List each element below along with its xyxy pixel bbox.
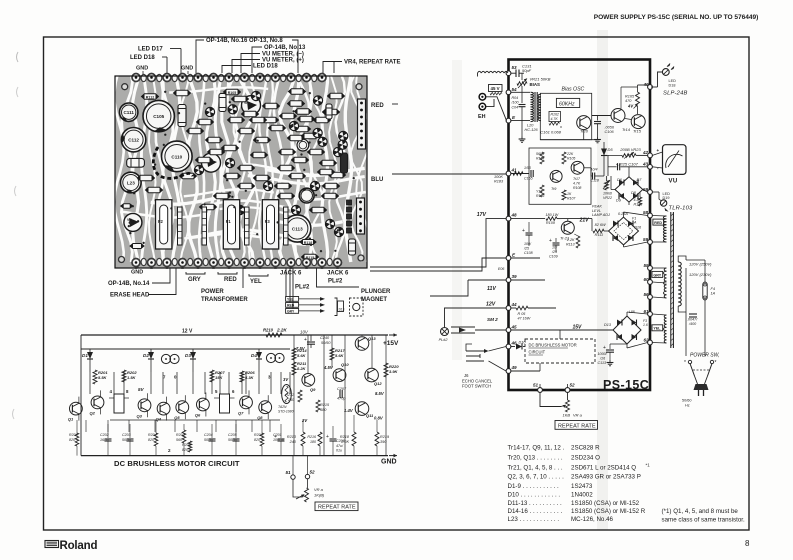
resistor oval r28 (pcb) bbox=[329, 172, 346, 178]
transistor Q8 bbox=[257, 395, 271, 420]
primary wires bbox=[678, 256, 705, 356]
svg-text:12 V: 12 V bbox=[182, 329, 193, 335]
svg-text:STD-1080: STD-1080 bbox=[278, 410, 294, 414]
LED D18 bbox=[651, 64, 688, 97]
trimmer VR22 bbox=[603, 176, 612, 200]
VU meter bbox=[657, 145, 687, 185]
diode D1 bbox=[82, 349, 93, 372]
svg-text:1S1850 (CSA) or MI-152: 1S1850 (CSA) or MI-152 bbox=[571, 500, 640, 507]
wire BLU to 41 bbox=[371, 174, 506, 183]
svg-text:470: 470 bbox=[625, 99, 632, 103]
terminal 49 bbox=[506, 365, 517, 373]
fuse F1 (pcb) bbox=[223, 200, 239, 249]
resistor oval r44 (pcb) bbox=[180, 173, 197, 179]
svg-text:D13: D13 bbox=[604, 323, 612, 327]
plunger coil PL#2 bbox=[439, 328, 449, 343]
transistor Q13 (pcb) bbox=[334, 227, 343, 236]
capacitor C107 bbox=[608, 155, 648, 176]
wire 42 43 to VU bbox=[652, 152, 662, 168]
svg-text:PL#2: PL#2 bbox=[328, 279, 343, 285]
svg-text:R210: R210 bbox=[263, 328, 274, 333]
svg-text:FOOT SWITCH: FOOT SWITCH bbox=[462, 384, 491, 389]
svg-text:Q10: Q10 bbox=[341, 362, 349, 367]
resistor R220 bbox=[384, 363, 399, 377]
Roland logo bbox=[45, 540, 97, 552]
resistor oval r49 (pcb) bbox=[250, 117, 267, 123]
T1 primary winding bbox=[678, 262, 681, 306]
svg-text:JACK 6: JACK 6 bbox=[280, 271, 302, 277]
resistor oval r21 (pcb) bbox=[224, 173, 241, 179]
terminal E top bbox=[506, 115, 516, 123]
transistor Tr17 bbox=[571, 161, 584, 190]
svg-text:*: * bbox=[715, 360, 717, 366]
svg-text:DC BRUSHLESS MOTOR: DC BRUSHLESS MOTOR bbox=[529, 343, 577, 348]
svg-text:41: 41 bbox=[511, 168, 518, 173]
svg-text:same class of same transistor.: same class of same transistor. bbox=[662, 517, 745, 524]
svg-text:47u/: 47u/ bbox=[336, 444, 344, 448]
svg-text:R219: R219 bbox=[380, 435, 390, 439]
svg-text:50/50: 50/50 bbox=[122, 438, 131, 442]
transistor Q9 bbox=[302, 374, 316, 393]
svg-text:12V: 12V bbox=[486, 302, 496, 308]
svg-text:VR: VR bbox=[127, 218, 132, 222]
pad column (pcb) bbox=[347, 200, 352, 233]
wire 17V to 48 bbox=[370, 212, 506, 267]
svg-text:10KB: 10KB bbox=[603, 192, 612, 196]
terminal 43 bbox=[642, 162, 652, 170]
capacitor C131 bbox=[511, 64, 532, 78]
svg-text:TA2N: TA2N bbox=[278, 405, 287, 409]
svg-text:GND: GND bbox=[131, 270, 143, 276]
resistor oval r40 (pcb) bbox=[310, 207, 327, 213]
svg-text:RED: RED bbox=[224, 277, 237, 283]
svg-text:100/: 100/ bbox=[524, 242, 532, 246]
svg-text:Q12: Q12 bbox=[374, 381, 382, 386]
svg-text:58: 58 bbox=[643, 210, 649, 215]
svg-text:C112: C112 bbox=[128, 138, 139, 143]
svg-text:*: * bbox=[684, 360, 686, 366]
LED D19 bbox=[660, 192, 693, 212]
label 120V bbox=[689, 262, 712, 278]
svg-text:8: 8 bbox=[745, 539, 750, 548]
diode strip D15 (pcb) bbox=[202, 207, 207, 245]
svg-text:50/50: 50/50 bbox=[321, 341, 331, 345]
svg-text:7.5V: 7.5V bbox=[296, 346, 306, 351]
solenoid SM2 armature bbox=[451, 317, 506, 333]
transistor Q8 (pcb) bbox=[235, 205, 244, 214]
svg-text:Q7: Q7 bbox=[238, 410, 244, 415]
svg-text:JACK 6: JACK 6 bbox=[327, 271, 349, 277]
svg-text:*1: *1 bbox=[646, 463, 651, 468]
transistor Q1 bbox=[68, 397, 82, 422]
svg-text:REPEAT RATE: REPEAT RATE bbox=[558, 423, 596, 429]
PCB bottom pad row bbox=[132, 258, 342, 269]
svg-text:Q8: Q8 bbox=[257, 415, 263, 420]
resistor R219 bbox=[375, 420, 390, 456]
svg-text:D16: D16 bbox=[634, 226, 642, 230]
resistor R165 bbox=[625, 85, 640, 106]
svg-text:VR4, REPEAT RATE: VR4, REPEAT RATE bbox=[344, 60, 400, 66]
resistor oval r47 (pcb) bbox=[146, 187, 163, 193]
svg-text:TRANSFORMER: TRANSFORMER bbox=[201, 297, 248, 303]
resistor oval r37 (pcb) bbox=[308, 149, 325, 155]
wire J6 to 49 bbox=[489, 361, 507, 371]
svg-text:BIAS: BIAS bbox=[530, 82, 541, 87]
terminal 44 bbox=[506, 302, 517, 310]
svg-text:Tr21, Q1, 4, 5, 8 . . .: Tr21, Q1, 4, 5, 8 . . . bbox=[508, 465, 563, 472]
svg-text:200B VR23: 200B VR23 bbox=[619, 147, 641, 152]
resistor R104 bbox=[536, 152, 545, 164]
svg-text:D10 . . . . . . . . . . . .: D10 . . . . . . . . . . . . bbox=[508, 492, 561, 499]
jumper cable (pcb) bbox=[153, 147, 193, 178]
diode D3 bbox=[185, 349, 196, 372]
svg-text:3.9K: 3.9K bbox=[389, 369, 399, 374]
diode D2 bbox=[143, 349, 154, 372]
foot switch jack J6 bbox=[462, 344, 493, 389]
transistor Q6 (pcb) bbox=[338, 140, 347, 149]
resistor oval r20 (pcb) bbox=[238, 165, 255, 171]
svg-text:680: 680 bbox=[320, 408, 327, 412]
diode strip D17 (pcb) bbox=[284, 207, 289, 245]
wire to bridge3 bbox=[560, 330, 613, 339]
capacitor C202 bbox=[100, 424, 112, 456]
svg-text:8.5V: 8.5V bbox=[375, 391, 385, 396]
svg-text:(*1) Q1, 4, 5, and 8 must be: (*1) Q1, 4, 5, and 8 must be bbox=[662, 508, 739, 515]
svg-text:45 V: 45 V bbox=[491, 86, 500, 91]
diode D4 bbox=[251, 349, 262, 372]
svg-text:POWER SW,: POWER SW, bbox=[690, 353, 720, 359]
svg-text:D19: D19 bbox=[663, 196, 670, 200]
capacitor C113 (pcb) bbox=[284, 215, 311, 242]
power switch S1 bbox=[684, 360, 717, 376]
resistor oval r46 (pcb) bbox=[200, 204, 217, 210]
terminal 62 bbox=[644, 338, 653, 345]
resistor oval r1 (pcb) bbox=[174, 90, 191, 96]
resistor R117 cylinder (pcb) bbox=[219, 94, 226, 112]
diode D10 bbox=[511, 341, 526, 350]
svg-text:40: 40 bbox=[643, 82, 650, 87]
resistor oval r53 (pcb) bbox=[228, 117, 245, 123]
capacitor C161 bbox=[540, 126, 561, 135]
wire E mid internal bbox=[511, 257, 540, 259]
svg-text:50/50: 50/50 bbox=[204, 438, 213, 442]
hall sensor H1 bbox=[109, 389, 129, 413]
svg-text:51: 51 bbox=[533, 383, 539, 388]
svg-text:50pF: 50pF bbox=[522, 68, 532, 73]
svg-text:D1: D1 bbox=[82, 353, 88, 358]
capacitor C120 (pcb) bbox=[297, 139, 309, 151]
thermistor TH1 bbox=[278, 385, 294, 414]
svg-text:POWER SUPPLY PS-15C (SERIAL NO: POWER SUPPLY PS-15C (SERIAL NO. UP TO 57… bbox=[594, 14, 758, 21]
svg-text:PLUNGER: PLUNGER bbox=[361, 289, 391, 295]
svg-text:VR22: VR22 bbox=[603, 196, 612, 200]
svg-text:RED: RED bbox=[287, 303, 295, 307]
svg-text:TLR-103: TLR-103 bbox=[669, 206, 694, 212]
svg-text:POWER: POWER bbox=[201, 289, 224, 295]
svg-text:C161 0.068: C161 0.068 bbox=[540, 130, 561, 135]
svg-text:Q11: Q11 bbox=[366, 413, 374, 418]
svg-text:8.2K: 8.2K bbox=[297, 366, 307, 371]
wire 41 to amp bbox=[511, 173, 529, 175]
transistor Q16 (pcb) bbox=[289, 121, 298, 130]
diode strip D16 (pcb) bbox=[245, 207, 250, 245]
svg-text:1A: 1A bbox=[711, 292, 716, 296]
resistor oval r23 (pcb) bbox=[238, 183, 255, 189]
svg-text:55: 55 bbox=[644, 263, 650, 268]
svg-text:43: 43 bbox=[642, 162, 649, 167]
diode cylinder D11 (pcb) bbox=[326, 104, 332, 119]
resistor oval r33 (pcb) bbox=[197, 119, 214, 125]
transistor Q17 (pcb) bbox=[310, 181, 319, 190]
label GRY box bbox=[652, 271, 663, 277]
connector strip CN1 (pcb) bbox=[358, 99, 366, 149]
wire osc out bbox=[592, 115, 611, 117]
svg-text:/25: /25 bbox=[523, 247, 529, 251]
svg-text:R105: R105 bbox=[567, 157, 575, 161]
resistor R162 bbox=[549, 112, 561, 126]
bridge rectifier D6-D9 bbox=[615, 177, 643, 203]
resistor oval r30 (pcb) bbox=[314, 117, 331, 123]
terminal 39 bbox=[506, 274, 517, 282]
label 21V bbox=[579, 218, 590, 224]
svg-text:R183: R183 bbox=[494, 180, 504, 184]
resistor cylinder R119 (pcb) bbox=[349, 239, 356, 255]
node 4V bbox=[627, 104, 638, 109]
svg-text:F2: F2 bbox=[158, 219, 164, 224]
svg-text:5.5K: 5.5K bbox=[98, 375, 108, 380]
power plug bbox=[682, 376, 709, 408]
terminal 48 bbox=[506, 213, 517, 222]
transistor Q3 (pcb) bbox=[313, 128, 322, 137]
svg-text:+: + bbox=[603, 345, 606, 351]
capacitor C111 (pcb) bbox=[120, 103, 138, 121]
resistor R109 bbox=[546, 213, 562, 225]
resistor R121 bbox=[634, 192, 643, 207]
resistor oval R112 (pcb) bbox=[142, 94, 159, 100]
terminal 46 bbox=[506, 341, 517, 349]
svg-text:+: + bbox=[304, 337, 307, 343]
svg-text:4.2K: 4.2K bbox=[634, 198, 642, 202]
fuse F3 (pcb) bbox=[262, 200, 278, 249]
svg-text:100K: 100K bbox=[494, 175, 503, 179]
resistor oval r50 (pcb) bbox=[263, 103, 280, 109]
PCB top pad row bbox=[132, 74, 326, 82]
svg-text:1S1850 (CSA) or MI-152 R: 1S1850 (CSA) or MI-152 R bbox=[571, 508, 646, 515]
terminal 45 bbox=[506, 325, 517, 333]
wire 12V to 44 bbox=[445, 302, 507, 328]
svg-text:50/50: 50/50 bbox=[228, 438, 237, 442]
svg-text:R204: R204 bbox=[148, 433, 157, 437]
PCB top callout labels bbox=[130, 38, 400, 74]
svg-text:R109: R109 bbox=[546, 221, 555, 225]
ground osc bbox=[519, 137, 526, 143]
diode D5 bbox=[601, 142, 613, 176]
svg-text:2SD671 L or 2SD414 Q: 2SD671 L or 2SD414 Q bbox=[571, 465, 636, 472]
resistor oval r3 (pcb) bbox=[289, 89, 306, 94]
transistor Q14 (pcb) bbox=[194, 165, 203, 174]
resistor R214 bbox=[292, 348, 307, 360]
resistor R202 bbox=[122, 370, 137, 382]
svg-text:LED D18: LED D18 bbox=[253, 64, 278, 70]
terminal 55 bbox=[644, 263, 653, 270]
capacitor C118 bbox=[584, 168, 604, 183]
svg-text:R103: R103 bbox=[536, 194, 544, 198]
transistor Q12 (pcb) bbox=[325, 219, 334, 228]
terminal 61 bbox=[644, 309, 653, 316]
svg-text:39: 39 bbox=[512, 274, 518, 279]
svg-text:100/50: 100/50 bbox=[273, 438, 284, 442]
terminal 52 bbox=[565, 383, 575, 393]
resistor R213 bbox=[287, 420, 305, 456]
svg-text:PL#2: PL#2 bbox=[439, 338, 449, 342]
svg-text:SLP-24B: SLP-24B bbox=[663, 91, 688, 97]
svg-text:Tr20: Tr20 bbox=[580, 129, 589, 134]
svg-text:2.2K: 2.2K bbox=[566, 238, 575, 242]
resistor oval r22 (pcb) bbox=[254, 175, 271, 181]
svg-text:R162: R162 bbox=[551, 113, 559, 117]
capacitor C206 bbox=[326, 426, 345, 456]
resistor R207 bbox=[210, 370, 225, 382]
resistor R217 bbox=[330, 348, 345, 360]
svg-text:1K(B): 1K(B) bbox=[314, 493, 325, 498]
resistor R206 bbox=[240, 370, 255, 382]
resistor oval R115 (pcb) bbox=[302, 254, 319, 260]
transistor Q3 bbox=[137, 393, 151, 418]
svg-text:BLU: BLU bbox=[371, 177, 383, 183]
svg-text:R04: R04 bbox=[512, 96, 519, 100]
svg-text:R208: R208 bbox=[182, 443, 191, 447]
svg-text:MAGNET: MAGNET bbox=[361, 297, 387, 303]
svg-text:R113: R113 bbox=[566, 243, 575, 247]
svg-text:VR a: VR a bbox=[573, 413, 583, 418]
svg-text:D14-16 . . . . . . . . . .: D14-16 . . . . . . . . . . bbox=[508, 508, 563, 515]
svg-text:R215: R215 bbox=[320, 403, 330, 407]
wire 45 internal bbox=[511, 329, 560, 331]
svg-text:R105: R105 bbox=[228, 91, 237, 95]
svg-text:1.5K: 1.5K bbox=[127, 375, 137, 380]
svg-text:/25: /25 bbox=[551, 250, 557, 254]
wire 39 internal bbox=[511, 279, 545, 281]
svg-text:VU: VU bbox=[669, 179, 678, 185]
oscillator transformer L20 bbox=[525, 92, 542, 132]
svg-text:R112: R112 bbox=[146, 95, 154, 99]
svg-text:C04: C04 bbox=[512, 106, 519, 110]
svg-text:C207: C207 bbox=[337, 387, 347, 391]
resistor R113 bbox=[566, 234, 580, 248]
connector strip CN2 (pcb) bbox=[357, 198, 365, 234]
terminal 40 bbox=[643, 82, 653, 89]
svg-text:C111: C111 bbox=[123, 110, 134, 115]
svg-text:Q2: Q2 bbox=[90, 410, 96, 415]
svg-text:R213: R213 bbox=[287, 435, 297, 439]
resistor R211 bbox=[292, 361, 307, 375]
oscillator loop box bbox=[540, 93, 591, 139]
label YEL box bbox=[652, 325, 663, 331]
wire 51 52 internal bbox=[540, 384, 568, 388]
PCB board outline bbox=[115, 76, 367, 268]
svg-text:YEL: YEL bbox=[653, 327, 661, 331]
capacitor C203 bbox=[122, 424, 134, 456]
cap cylinder C119 (pcb) bbox=[127, 158, 145, 167]
resistor oval r36 (pcb) bbox=[302, 133, 319, 139]
svg-text:VR21 50KB: VR21 50KB bbox=[530, 77, 551, 82]
resistor oval r32 (pcb) bbox=[328, 93, 345, 99]
transistor Tr9 bbox=[550, 170, 562, 191]
wire 40 internal bbox=[621, 85, 648, 114]
svg-text:1A: 1A bbox=[632, 221, 637, 225]
wire 54 to L20 bbox=[511, 91, 530, 93]
wire J6 to 46 bbox=[489, 347, 507, 352]
svg-text:15K: 15K bbox=[215, 375, 223, 380]
resistor oval R105 (pcb) bbox=[224, 89, 241, 95]
svg-text:22K: 22K bbox=[566, 152, 574, 156]
resistor R216 bbox=[307, 432, 322, 456]
transistor Tr20 bbox=[577, 116, 591, 134]
svg-text:C240: C240 bbox=[320, 336, 330, 340]
capacitor C04 bbox=[511, 86, 526, 137]
motor right verticals bbox=[294, 335, 386, 456]
svg-text:PL#2: PL#2 bbox=[295, 285, 310, 291]
capacitor C108 bbox=[522, 222, 533, 255]
svg-text:R212: R212 bbox=[285, 393, 294, 397]
resistor oval r4 (pcb) bbox=[232, 96, 249, 102]
wire VR23 bbox=[604, 142, 648, 155]
wire 51 52 external bbox=[540, 392, 568, 406]
bridge rectifier D13 bbox=[604, 310, 648, 344]
capacitor C145 bbox=[686, 308, 698, 326]
label 60KHz box bbox=[556, 98, 579, 107]
svg-text:C203: C203 bbox=[122, 433, 131, 437]
transistor Q12 bbox=[365, 368, 383, 386]
svg-text:GND: GND bbox=[381, 459, 397, 466]
capacitor cylinder (pcb) bbox=[341, 153, 348, 173]
svg-text:4.7K: 4.7K bbox=[551, 117, 559, 121]
svg-text:EH: EH bbox=[478, 114, 486, 120]
svg-text:2SD234 O: 2SD234 O bbox=[571, 455, 600, 462]
svg-text:R107: R107 bbox=[567, 197, 576, 201]
diode strip D14 (pcb) bbox=[178, 207, 183, 245]
svg-text:2.2K: 2.2K bbox=[340, 440, 349, 444]
label 45V box bbox=[489, 85, 503, 95]
svg-text:Roland: Roland bbox=[60, 540, 98, 552]
terminal 59a bbox=[643, 187, 652, 194]
wire 21V rail bbox=[562, 219, 593, 231]
svg-text:1K: 1K bbox=[567, 192, 572, 196]
svg-text:Q4: Q4 bbox=[156, 417, 162, 422]
svg-text:Q3: Q3 bbox=[137, 413, 143, 418]
terminal 54 bbox=[506, 87, 517, 95]
resistor oval r24 (pcb) bbox=[206, 137, 223, 143]
wire bridge3 bbox=[627, 312, 648, 348]
page number 8 bbox=[745, 539, 750, 548]
transistor Q4 bbox=[156, 397, 170, 422]
svg-text:D1-9 . . . . . . . . . . .: D1-9 . . . . . . . . . . . bbox=[508, 483, 560, 490]
capacitor C165 bbox=[524, 166, 533, 181]
transistor Q4 (pcb) bbox=[318, 137, 327, 146]
svg-text:10/4: 10/4 bbox=[591, 168, 598, 172]
svg-text:Tr17: Tr17 bbox=[573, 177, 581, 181]
svg-text:PS-15C: PS-15C bbox=[603, 378, 649, 392]
capacitor C205 bbox=[228, 424, 240, 456]
svg-text:J6: J6 bbox=[464, 373, 469, 378]
bias wire squiggle bbox=[478, 71, 508, 76]
svg-text:GND: GND bbox=[181, 66, 193, 72]
via dots (pcb) bbox=[128, 91, 355, 253]
svg-text:R 05: R 05 bbox=[518, 312, 527, 316]
transformer T1 core bbox=[671, 212, 674, 348]
svg-text:C109: C109 bbox=[549, 255, 558, 259]
svg-text:E06: E06 bbox=[498, 267, 504, 271]
